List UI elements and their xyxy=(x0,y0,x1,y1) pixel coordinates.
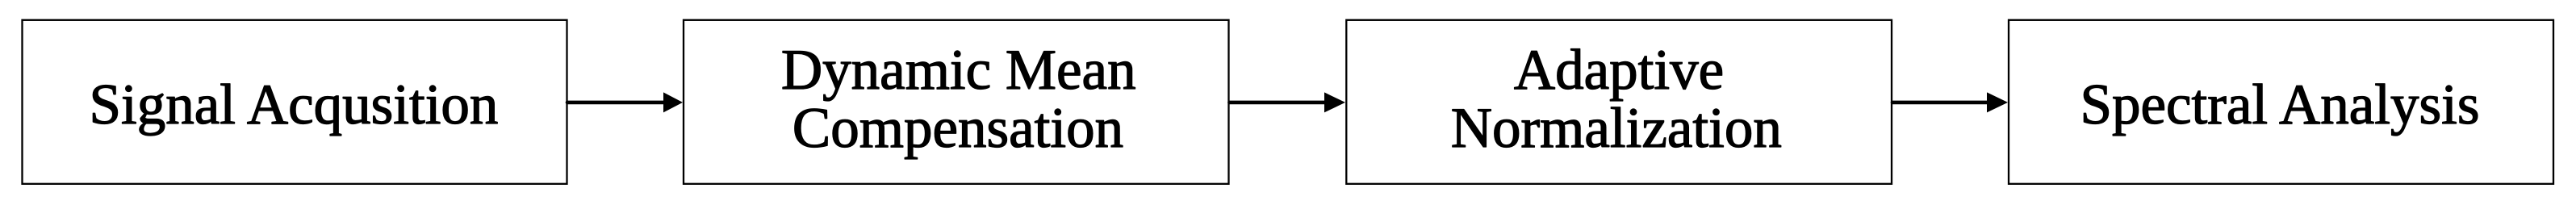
svg-text:Dynamic Mean: Dynamic Mean xyxy=(781,39,1136,102)
svg-text:Signal Acqusition: Signal Acqusition xyxy=(90,73,499,136)
svg-text:Adaptive: Adaptive xyxy=(1514,39,1724,102)
svg-text:Compensation: Compensation xyxy=(792,97,1123,160)
svg-text:Normalization: Normalization xyxy=(1451,97,1782,160)
svg-text:Spectral Analysis: Spectral Analysis xyxy=(2080,73,2480,136)
